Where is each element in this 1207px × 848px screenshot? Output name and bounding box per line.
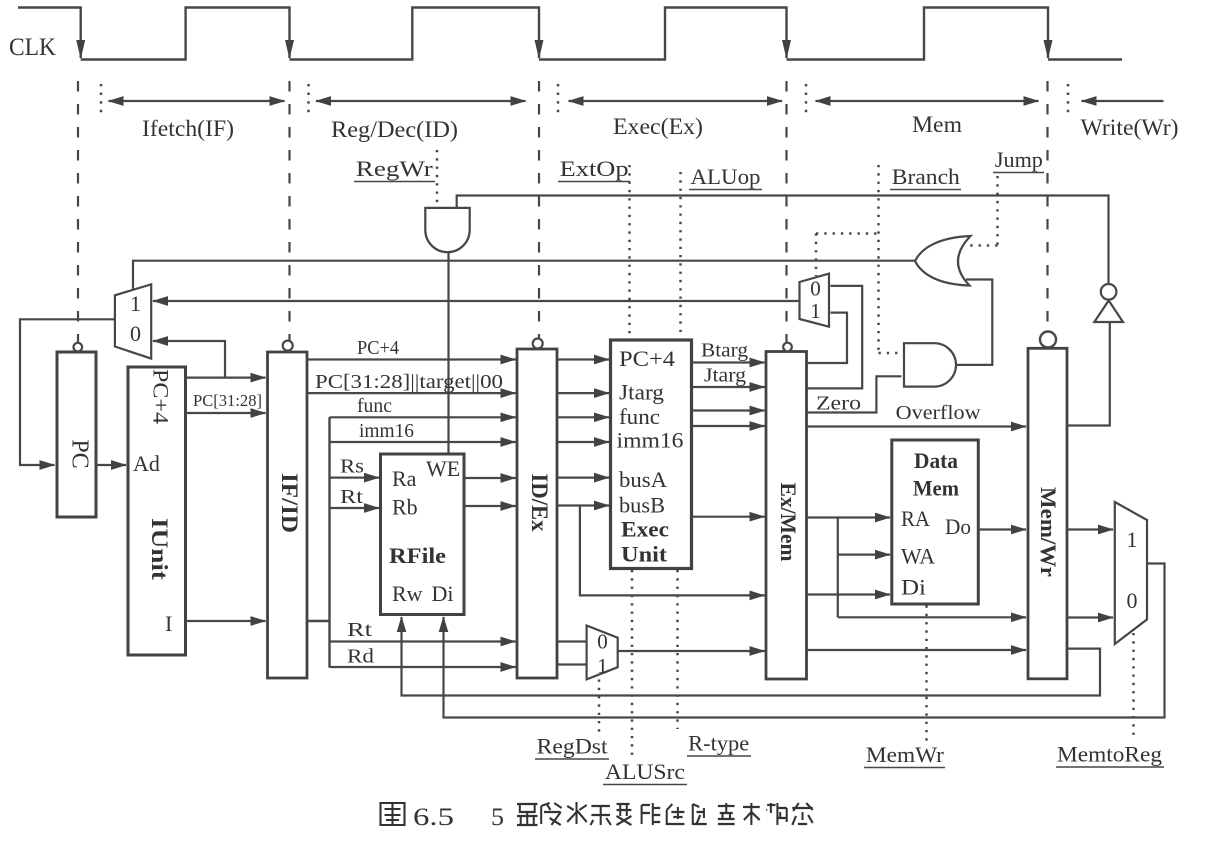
wire Exec Jtarg to Ex/Mem [692, 386, 765, 388]
wire Ex/Mem Rw number to Mem/Wr [807, 649, 1027, 651]
stage boundary dashed line 4 (Mem clock) [785, 81, 787, 343]
wire Exec Btarg to Ex/Mem [692, 361, 765, 363]
svg-text:Ad: Ad [133, 451, 160, 476]
svg-text:Reg/Dec(ID): Reg/Dec(ID) [331, 117, 458, 142]
svg-text:1: 1 [1127, 527, 1138, 552]
wire Ex/Mem Zero to AND U3 [807, 376, 902, 412]
wire IF/ID PC+4 out to ID/Ex [307, 358, 516, 360]
block Exec Unit [611, 340, 692, 569]
wire Exec Overflow to Ex/Mem [692, 425, 765, 427]
svg-text:Btarg: Btarg [701, 340, 748, 362]
svg-text:Mem: Mem [912, 112, 962, 137]
svg-text:Jtarg: Jtarg [704, 365, 746, 387]
stage boundary dashed line 1 (IF clock) [77, 81, 79, 343]
wire Exec Zero to Ex/Mem [692, 409, 765, 411]
stage separator dotted tick 2 [307, 84, 310, 115]
svg-text:Rt: Rt [340, 486, 364, 508]
mux M1 (next PC select) [115, 284, 151, 358]
wire IUnit PC+4 out to IF/ID [186, 377, 266, 379]
svg-text:Jump: Jump [995, 147, 1043, 172]
svg-text:0: 0 [1127, 588, 1138, 613]
clock waveform CLK [18, 8, 1122, 60]
wire RFile busA to ID/Ex [464, 477, 516, 479]
svg-text:Unit: Unit [621, 542, 668, 567]
stage span arrow Ifetch(IF) [109, 100, 285, 102]
signal R-type dotted line [676, 570, 679, 729]
stage span arrow Mem [816, 100, 1039, 102]
svg-text:WA: WA [901, 544, 935, 569]
wire ID/Ex imm16 to Exec [557, 441, 609, 443]
svg-text:WE: WE [426, 456, 460, 481]
stage separator dotted tick 5 [1067, 84, 1070, 115]
wire AND U3 output to OR U2 input [956, 280, 992, 365]
svg-text:Zero: Zero [816, 393, 861, 415]
wire PC-mux output to PC [20, 319, 115, 465]
svg-text:CLK: CLK [9, 34, 56, 61]
signal Jump dotted line [966, 176, 998, 246]
wire ID/Ex busA to Exec [557, 477, 609, 479]
wire instruction bus stub [307, 417, 330, 667]
svg-text:0: 0 [597, 630, 608, 654]
wire ID/Ex Jtarg to Exec [557, 392, 609, 394]
svg-text:Branch: Branch [892, 164, 960, 189]
svg-text:Ex/Mem: Ex/Mem [776, 483, 801, 562]
svg-text:Mem: Mem [913, 476, 959, 501]
wire func to ID/Ex [330, 416, 516, 418]
svg-text:R-type: R-type [688, 731, 749, 756]
wire IUnit I out to IF/ID [186, 620, 266, 622]
clock bubble on IF/ID [283, 341, 293, 351]
svg-text:1: 1 [810, 299, 821, 323]
svg-text:func: func [619, 404, 660, 429]
svg-text:RFile: RFile [389, 543, 446, 568]
wire mux M4 output back to RFile Di [444, 564, 1165, 718]
signal ALUop dotted line [679, 172, 682, 338]
svg-text:Mem/Wr: Mem/Wr [1036, 487, 1061, 577]
svg-text:ALUSrc: ALUSrc [605, 759, 685, 784]
svg-text:Overflow: Overflow [896, 402, 982, 424]
mux M4 (MemtoReg) [1115, 502, 1147, 644]
stage boundary dashed line 5 (Wr clock) [1046, 81, 1048, 332]
svg-text:1: 1 [597, 654, 608, 678]
stage boundary dashed line 3 (Ex clock) [538, 81, 540, 339]
register IF/ID [268, 352, 308, 678]
svg-text:Exec: Exec [621, 517, 669, 542]
wire ALU result branch down [837, 518, 839, 618]
clock bubble on PC [74, 343, 83, 352]
wire Rt to ID/Ex [330, 640, 516, 642]
stage span arrow Write(Wr) [1082, 100, 1164, 102]
svg-text:PC[31:28]||target||00: PC[31:28]||target||00 [315, 371, 503, 393]
register PC [57, 352, 96, 517]
svg-text:PC[31:28]: PC[31:28] [193, 391, 262, 410]
block RFile [381, 454, 465, 615]
svg-text:Do: Do [945, 514, 971, 539]
wire Mem/Wr Do out to mux M4 input 1 [1067, 528, 1113, 530]
svg-text:PC+4: PC+4 [148, 369, 173, 424]
wire AND output to RFile WE [447, 252, 449, 452]
svg-text:RegDst: RegDst [537, 734, 608, 759]
wire Data Mem Do to Mem/Wr [978, 528, 1026, 530]
wire Rs to RFile Ra [330, 477, 380, 479]
svg-text:imm16: imm16 [617, 428, 684, 453]
wire inverter output to RegWr AND gate [457, 196, 1109, 284]
svg-text:PC: PC [66, 439, 92, 468]
svg-text:Ra: Ra [392, 466, 417, 491]
wire PC+4 to PC-mux input 0 [153, 341, 225, 378]
clock bubble on Mem/Wr [1040, 332, 1056, 348]
wire OR output to PC-mux select [133, 261, 916, 289]
wire RegDst mux output to Ex/Mem [618, 650, 765, 652]
svg-text:MemtoReg: MemtoReg [1057, 742, 1162, 767]
svg-text:Exec(Ex): Exec(Ex) [613, 114, 703, 139]
wire ALU result to Data Mem WA [838, 553, 890, 555]
signal MemWr dotted line [925, 606, 928, 742]
wire ID/Ex func to Exec [557, 416, 609, 418]
caption figure number [381, 803, 405, 825]
svg-text:RegWr: RegWr [356, 156, 434, 181]
wire Ex/Mem ALU result to Data Mem RA [807, 516, 891, 518]
or-gate U2 (branch/jump, points left) [915, 236, 971, 286]
svg-text:imm16: imm16 [359, 420, 414, 442]
wire Ex/Mem Jtarg to target-mux input 0 [807, 286, 863, 389]
signal MemtoReg dotted line [1132, 633, 1135, 739]
stage separator dotted tick 4 [805, 84, 808, 115]
stage span arrow Reg/Dec(ID) [316, 100, 526, 102]
svg-text:6.5: 6.5 [413, 804, 454, 831]
wire Rd to ID/Ex [330, 666, 516, 668]
mux M2 (Btarg/Jtarg select) [800, 274, 830, 327]
wire PC to IUnit Ad [96, 464, 126, 466]
svg-text:func: func [357, 395, 392, 417]
wire ID/Ex PC+4 to Exec [557, 358, 609, 360]
signal RegDst dotted line [598, 680, 601, 738]
svg-text:Write(Wr): Write(Wr) [1081, 115, 1179, 140]
inverter U4 (points up with bubble) [1094, 301, 1123, 323]
signal ALUSrc dotted line [631, 570, 634, 756]
wire ALU result bypass to Mem/Wr [838, 616, 1026, 618]
wire Mem/Wr Rw number back to RFile Rw [402, 617, 1101, 696]
wire IUnit PC[31:28] out to IF/ID [186, 412, 266, 414]
svg-text:IF/ID: IF/ID [277, 473, 302, 533]
wire Exec ALU result to Ex/Mem [692, 516, 765, 518]
svg-text:Rt: Rt [347, 619, 373, 641]
clock bubble on ID/Ex [533, 339, 543, 349]
register ID/Ex [517, 349, 557, 678]
svg-text:ALUop: ALUop [691, 164, 761, 189]
svg-text:5: 5 [491, 804, 504, 831]
svg-text:IUnit: IUnit [147, 518, 172, 580]
svg-text:Di: Di [432, 581, 454, 606]
svg-text:0: 0 [130, 321, 141, 346]
clock bubble on Ex/Mem [783, 343, 792, 352]
and-gate U1 (RegWr gating, points down) [425, 208, 469, 252]
block IUnit [128, 367, 186, 655]
stage separator dotted tick 1 [100, 84, 103, 115]
wire Ex/Mem Btarg to target-mux input 1 [807, 313, 848, 363]
wire jump target to ID/Ex [307, 392, 516, 394]
wire Mem/Wr ALU bypass out to mux M4 input 0 [1067, 616, 1113, 618]
svg-text:Jtarg: Jtarg [619, 380, 664, 405]
and-gate U3 (Branch AND Zero, points right) [904, 343, 956, 386]
svg-text:Rs: Rs [340, 456, 364, 478]
svg-text:0: 0 [810, 277, 821, 301]
signal RegWr dotted line [436, 150, 439, 206]
stage separator dotted tick 3 [557, 84, 560, 115]
svg-text:Data: Data [914, 448, 958, 473]
register Ex/Mem [766, 352, 807, 680]
svg-text:busB: busB [619, 493, 665, 518]
svg-text:1: 1 [130, 291, 141, 316]
svg-text:MemWr: MemWr [866, 742, 945, 767]
clock falling-edge arrowheads [76, 40, 1052, 59]
svg-text:Di: Di [901, 575, 926, 600]
svg-text:RA: RA [901, 506, 930, 531]
wire ID/Ex Rd to RegDst mux [557, 663, 588, 665]
signal ExtOp dotted line [628, 165, 631, 338]
wire imm16 to ID/Ex [330, 441, 516, 443]
register Mem/Wr [1028, 348, 1067, 679]
svg-text:ExtOp: ExtOp [560, 156, 629, 181]
svg-text:busA: busA [619, 467, 667, 492]
signal Branch dotted line [816, 165, 902, 353]
wire busB bypass to Ex/Mem [580, 506, 765, 596]
wire RFile busB to ID/Ex [464, 505, 516, 507]
wire Ex/Mem busB to Data Mem Di [807, 593, 891, 595]
wire Ex/Mem Overflow to Mem/Wr [807, 425, 1027, 427]
wire ID/Ex Rt to RegDst mux [557, 640, 588, 642]
svg-text:I: I [165, 611, 172, 636]
svg-text:Ifetch(IF): Ifetch(IF) [142, 116, 234, 141]
stage boundary dashed line 2 (ID clock) [288, 81, 290, 341]
mux M3 (RegDst) [587, 626, 618, 680]
wire Rt to RFile Rb [330, 507, 380, 509]
stage span arrow Exec(Ex) [569, 100, 783, 102]
svg-text:Rd: Rd [347, 646, 374, 668]
caption text strokes [517, 802, 813, 825]
svg-text:ID/Ex: ID/Ex [527, 474, 552, 532]
svg-text:Rb: Rb [392, 495, 418, 520]
wire Mem/Wr Overflow out to inverter [1067, 322, 1110, 426]
wire target-mux output to PC-mux input 1 [153, 300, 800, 302]
svg-text:PC+4: PC+4 [619, 346, 675, 371]
block Data Mem [892, 440, 979, 604]
svg-text:PC+4: PC+4 [357, 337, 399, 359]
svg-text:Rw: Rw [392, 581, 423, 606]
wire ID/Ex busB to Exec [557, 504, 609, 506]
